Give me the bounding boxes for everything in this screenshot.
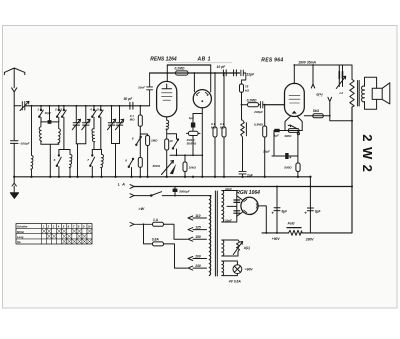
transformer secondary HV top (222, 191, 224, 206)
svg-text:L2: L2 (340, 91, 344, 95)
capacitor 10nF grid (147, 73, 153, 106)
wire antenna down (13, 106, 15, 141)
switch 8 (129, 159, 134, 177)
coil antenna L1 (31, 106, 33, 177)
resistor 1M (140, 134, 147, 136)
svg-text:ü(1): ü(1) (244, 246, 250, 250)
wire detector row (170, 154, 202, 156)
wire fuse junction (144, 224, 153, 244)
switch LA (152, 192, 162, 196)
svg-text:Feld: Feld (288, 222, 296, 226)
G-POWER (130, 177, 313, 276)
svg-text:12pF: 12pF (246, 72, 255, 76)
svg-text:10: 10 (88, 225, 91, 229)
svg-text:800Ω: 800Ω (153, 164, 161, 168)
switch 9 (136, 137, 141, 145)
switch 5 (99, 106, 103, 150)
svg-text:+90V: +90V (272, 237, 281, 241)
coil L2a (39, 122, 42, 144)
svg-text:MΩ: MΩ (220, 126, 225, 130)
svg-text:Lang: Lang (17, 235, 24, 239)
G-TOP-CENTER (176, 65, 285, 177)
svg-text:L A: L A (118, 182, 126, 186)
svg-text:10nF: 10nF (225, 218, 232, 222)
svg-text:AB 1: AB 1 (197, 56, 211, 62)
resistor 2/2k (189, 131, 199, 135)
capacitor block sw8 branch (138, 158, 142, 168)
svg-text:240: 240 (194, 264, 201, 268)
resistor 400 with wiper (288, 129, 299, 133)
wire cathode row (274, 130, 302, 132)
G-ANTENNA-SECTION (4, 68, 29, 198)
tap arrow 125 (188, 228, 207, 232)
wire group2 top (92, 149, 101, 151)
wire B+ bottom rail left part (262, 232, 289, 234)
G-JUNCTIONS (13, 64, 353, 234)
speaker (372, 88, 382, 99)
resistor 0,2M screen (176, 71, 189, 75)
svg-text:5000pF: 5000pF (179, 189, 190, 193)
svg-text:10nF: 10nF (225, 187, 232, 191)
cathode flare (285, 117, 302, 131)
svg-text:≈W: ≈W (139, 207, 145, 211)
wire HV to caps (222, 191, 237, 223)
transformer secondary HV bottom (222, 207, 224, 222)
G-OUTPUT (263, 65, 390, 177)
svg-text:10µF: 10µF (263, 150, 270, 154)
tap arrow 150 (188, 237, 207, 241)
wire RES grid (263, 104, 285, 106)
svg-text:ü(+): ü(+) (316, 93, 322, 97)
wire antenna to trimmer (14, 105, 21, 107)
wire band loop bottom (41, 144, 59, 177)
potentiometer 800 wedge (162, 161, 174, 175)
capacitor 200pF (260, 102, 284, 108)
capacitor ~100pF (11, 141, 19, 177)
svg-text:1µF: 1µF (189, 116, 194, 120)
tap arrow 200 (188, 257, 207, 261)
svg-text:200pF: 200pF (253, 110, 263, 114)
svg-text:10 pF: 10 pF (217, 65, 227, 69)
fuse 0,8A (153, 242, 164, 246)
underline artifact (168, 62, 232, 64)
switch 4 (92, 106, 96, 129)
gang capacitor section b (82, 106, 90, 144)
svg-text:0,2MΩ: 0,2MΩ (175, 66, 185, 70)
wire AB1 cathode (193, 108, 202, 177)
capacitor 1uF cathode (274, 129, 279, 132)
field coil resistor (287, 227, 301, 229)
transformer core (215, 191, 217, 276)
wire LA lower (134, 195, 211, 197)
wire anode slants (237, 196, 243, 216)
jack L2 (339, 65, 342, 72)
resistor 0,1M b (223, 73, 225, 127)
svg-text:4: 4 (89, 108, 92, 112)
svg-text:180V 35mA: 180V 35mA (298, 61, 316, 65)
capacitor 1uF black (192, 114, 194, 123)
coil L5 (101, 150, 104, 177)
G-TEXT (150, 56, 283, 195)
capacitor 8uF b (307, 177, 313, 233)
tap arrow 110 (188, 216, 207, 220)
svg-text:2: 2 (54, 108, 57, 112)
resistor 5k (313, 114, 324, 118)
switch 2 (57, 106, 61, 122)
LA terminal arrows (130, 185, 134, 198)
svg-text:0,5MΩ: 0,5MΩ (254, 122, 264, 126)
output transformer primary zigzag (350, 79, 354, 107)
capacitor 10pF b (234, 70, 237, 76)
wire 5k row (304, 115, 330, 117)
trimmer capacitor antenna (20, 101, 29, 110)
output transformer secondary (362, 86, 365, 102)
tap symbol 180V (311, 65, 314, 88)
capacitor 50pF (130, 102, 133, 109)
svg-text:40pF: 40pF (44, 111, 52, 115)
svg-text:4V 0,6A: 4V 0,6A (228, 280, 242, 284)
svg-text:≈90V: ≈90V (245, 268, 253, 272)
band switch table (16, 224, 92, 245)
capacitor HV a (234, 200, 240, 202)
arrow down on antenna lead (12, 88, 17, 106)
svg-text:50/50Ω: 50/50Ω (187, 142, 197, 146)
tube AB1 (193, 90, 211, 108)
wire rail B (anode feed) (150, 72, 240, 74)
G-LEFT-RF (31, 106, 124, 177)
resistor 0,2M detector (242, 104, 248, 106)
wire AB1 anode leads (194, 65, 210, 92)
switch 7 (90, 150, 95, 177)
svg-text:RENS 1264: RENS 1264 (150, 56, 177, 62)
wire gang2 join (112, 144, 120, 177)
wire grid bus (26, 105, 150, 107)
svg-text:kΩ: kΩ (245, 88, 250, 92)
svg-text:MΩ: MΩ (130, 118, 135, 122)
ground (12, 177, 16, 193)
resistor 0,5M (264, 105, 266, 126)
gang capacitor section a (72, 106, 80, 144)
svg-text:200: 200 (194, 255, 201, 259)
X marks row Sp (62, 239, 92, 243)
switch 1 (39, 106, 43, 122)
svg-text:1µF: 1µF (274, 134, 279, 138)
G-MAIN-RAILS (14, 65, 352, 233)
wire RGN output (258, 206, 266, 233)
capacitor HV b (234, 211, 240, 213)
svg-text:50 pF: 50 pF (124, 97, 134, 101)
svg-text:Schalter: Schalter (17, 225, 29, 229)
svg-text:110: 110 (195, 214, 200, 218)
wire primary top (209, 195, 211, 197)
fuse 1A (153, 222, 164, 226)
svg-text:0,8A: 0,8A (152, 237, 160, 241)
tap arrow 240 (188, 266, 207, 270)
wire top right rail (294, 65, 352, 79)
G-MIDDLE (128, 65, 202, 177)
svg-text:MΩ: MΩ (211, 126, 216, 130)
rheostat 4V (222, 240, 243, 256)
transformer secondary 4V rect (222, 240, 224, 256)
antenna (4, 68, 24, 88)
wire ground bus (14, 176, 310, 178)
coil L3 (69, 150, 72, 177)
svg-text:500Ω: 500Ω (284, 165, 292, 169)
wire RENS anode top (166, 65, 168, 82)
svg-text:150: 150 (195, 235, 201, 239)
wire B+ bottom rail right part (302, 232, 352, 234)
wire rail A (top anode) (167, 64, 210, 66)
capacitor 2uF (239, 171, 246, 176)
transformer primary winding (209, 196, 210, 276)
svg-text:280V: 280V (305, 237, 315, 241)
output transformer core (358, 81, 360, 107)
gang capacitor section d (116, 106, 124, 144)
svg-text:10: 10 (169, 139, 173, 143)
coil cathode 50 (166, 117, 169, 139)
svg-text:Sp.: Sp. (17, 240, 21, 244)
coil L2b (58, 122, 61, 144)
G-TABLE (16, 224, 92, 245)
svg-text:400Ω: 400Ω (283, 134, 292, 138)
capacitor 10pF a (223, 70, 226, 76)
capacitor 12pF (241, 70, 246, 84)
svg-text:10kΩ: 10kΩ (189, 165, 197, 169)
mains terminal (130, 222, 153, 226)
X marks row Mittel (42, 229, 92, 233)
svg-text:2 W 2: 2 W 2 (360, 134, 375, 172)
speaker wires (365, 77, 377, 109)
capacitor 5000pF (173, 189, 178, 192)
capacitor 40pF padding (49, 106, 51, 120)
capacitor 10uF (285, 153, 288, 159)
svg-text:RES 964: RES 964 (261, 58, 283, 64)
X marks row Lang (47, 234, 87, 238)
svg-text:2µF: 2µF (246, 174, 254, 178)
resistor 0,1M a (214, 73, 216, 127)
svg-text:5kΩ: 5kΩ (313, 109, 320, 113)
switch 3 (62, 106, 66, 150)
tube RES 964 (285, 83, 305, 116)
svg-text:~100pF: ~100pF (19, 142, 30, 146)
capacitor 8uF a (274, 187, 280, 233)
tube RGN 1064 (241, 197, 258, 214)
svg-text:RGN 1064: RGN 1064 (236, 190, 260, 196)
svg-text:0,2MΩ: 0,2MΩ (247, 98, 257, 102)
fork test point (328, 97, 332, 116)
svg-text:1MΩ: 1MΩ (151, 139, 158, 143)
resistor 0,1M (139, 106, 141, 115)
resistor 10k (184, 155, 186, 162)
resistor 500 (297, 131, 299, 164)
wire right mid (330, 116, 352, 121)
switch 6 (57, 150, 62, 177)
svg-text:1 A: 1 A (153, 218, 159, 222)
lamp (222, 261, 238, 276)
wire gang join (76, 144, 86, 177)
resistor 75k (240, 84, 244, 92)
choke HF (241, 120, 245, 171)
gang capacitor section c (108, 106, 116, 144)
coil L4 (92, 129, 95, 150)
transformer secondary 4V out (222, 261, 224, 276)
wire band loop top (41, 121, 59, 123)
wire cathode down (272, 131, 298, 157)
svg-text:Mittel: Mittel (17, 230, 24, 234)
resistor 650 (165, 139, 169, 150)
tube RENS 1264 (157, 81, 177, 117)
switch 10 (167, 134, 179, 156)
wire heater rail (134, 186, 352, 188)
wire RES anode (293, 65, 295, 84)
svg-text:10nF: 10nF (138, 86, 145, 90)
wire group1 top (59, 149, 70, 151)
svg-text:125: 125 (195, 226, 201, 230)
wire right edge vertical (351, 107, 353, 233)
